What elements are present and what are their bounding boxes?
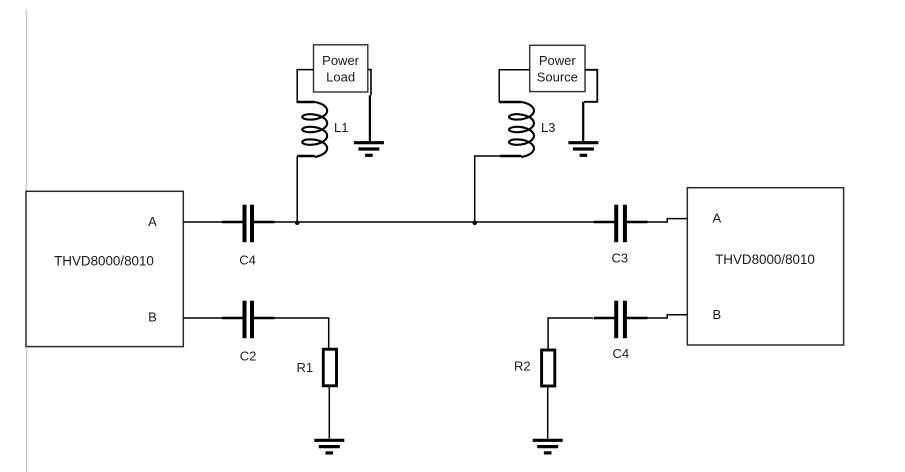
svg-text:Source: Source (537, 70, 578, 85)
svg-text:THVD8000/8010: THVD8000/8010 (54, 254, 154, 269)
svg-text:C3: C3 (611, 251, 628, 266)
wire: U2 pin B to C4 (with jog) (647, 315, 688, 318)
wire: L3 bottom exit stub (500, 155, 522, 157)
svg-text:C2: C2 (240, 349, 257, 364)
svg-text:Power: Power (322, 53, 360, 68)
IC U2 THVD8000/8010 (right) (687, 188, 843, 345)
block: Power Load (314, 45, 368, 92)
wire: R1 to ground (328, 386, 330, 439)
wire: C2 to R1 (274, 318, 329, 349)
ground (under R1) (314, 439, 344, 442)
ground (under R2) (533, 439, 563, 442)
svg-text:B: B (712, 307, 721, 322)
IC U1 THVD8000/8010 (left) (26, 191, 183, 346)
svg-text:R2: R2 (514, 359, 531, 374)
node: junction dot right (472, 221, 477, 226)
wire: C4 to junctions to C3 (A bus) (274, 221, 614, 223)
svg-text:A: A (148, 214, 157, 229)
capacitor C3 (right, A line) (614, 205, 618, 243)
svg-text:R1: R1 (297, 360, 314, 375)
svg-text:Power: Power (539, 53, 577, 68)
svg-text:A: A (712, 211, 721, 226)
wire: L3 bottom to bus junction (475, 156, 500, 222)
svg-text:C4: C4 (612, 346, 629, 361)
wire: L1 top entry stub (297, 101, 315, 103)
wire: L1 bottom exit stub (297, 155, 315, 157)
wire: Power Source right lead to ground (584, 70, 597, 102)
wire: L1 down to bus junction (296, 156, 298, 222)
ground (under Power Source) (568, 141, 598, 144)
wire: C4 to R2 (548, 318, 593, 350)
capacitor C4 (left, A line) (243, 205, 247, 243)
wire: U1 pin A to C4 left (183, 221, 222, 223)
node: junction dot left (295, 221, 300, 226)
inductor L1 (302, 102, 327, 157)
capacitor C4 (right, B line) (614, 301, 618, 339)
resistor R2 (542, 350, 555, 386)
block: Power Source (530, 45, 585, 91)
inductor L3 (509, 102, 534, 157)
svg-text:C4: C4 (239, 253, 256, 268)
wire: Power Load right lead to ground (368, 70, 371, 96)
ground (under Power Load) (354, 141, 384, 144)
svg-text:THVD8000/8010: THVD8000/8010 (715, 252, 815, 267)
svg-text:L1: L1 (334, 120, 348, 135)
wire: R2 to ground (547, 386, 549, 439)
wire: Power Source left lead (box to L3 top) (499, 70, 530, 102)
wire: U1 pin B to C2 (183, 317, 222, 319)
resistor R1 (323, 349, 336, 386)
wire: C3 to U2 pin A (with jog) (647, 219, 688, 222)
svg-text:Load: Load (326, 69, 355, 84)
svg-text:L3: L3 (541, 120, 555, 135)
svg-text:B: B (148, 309, 157, 324)
wire: L3 top entry stub (499, 101, 522, 103)
wire: Power Load left lead (box to L1 top) (297, 70, 313, 102)
capacitor C2 (left, B line) (243, 301, 247, 339)
